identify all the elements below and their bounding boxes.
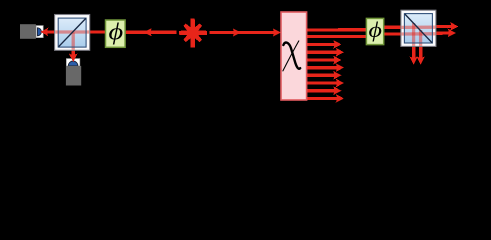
wire crystal output mode 2 [307, 35, 372, 38]
arrowhead BS2 down 1 [409, 57, 417, 65]
beamsplitter BS2 cube [404, 14, 432, 43]
wire beams through BS2 (muted) [402, 23, 436, 46]
phase shifter P2 box [366, 18, 383, 44]
wire BS2 down beam 2 [419, 30, 422, 59]
wire beam through BS1 (muted) [55, 32, 89, 50]
wire crystal fan arrow 4 [307, 66, 338, 69]
beamsplitter BS2 diagonal [405, 14, 432, 43]
svg-text:ϕ: ϕ [368, 19, 381, 43]
wire source to chi crystal [210, 31, 277, 34]
beamsplitter BS1 cube border [58, 18, 86, 47]
detector D1 sensor [37, 28, 41, 36]
wire crystal fan arrow 6 [307, 81, 338, 84]
wire crystal fan arrow 7 [307, 89, 335, 92]
wire BS2 down beam 1 [412, 23, 415, 59]
crystal chi label [283, 41, 300, 71]
star light source [179, 19, 207, 48]
wire phase shifter to source [125, 31, 177, 34]
arrowhead output mode 1 [450, 22, 458, 30]
detector D1 window [36, 26, 43, 38]
beamsplitter BS1 frame [55, 15, 90, 51]
wire crystal fan arrow 1 [307, 43, 335, 46]
arrowhead into D1 [40, 28, 48, 36]
arrowhead into D2 [69, 54, 78, 62]
wire BS1 down to D2 [72, 33, 75, 56]
beamsplitter BS2 cube border [404, 14, 432, 43]
detector D2 window [66, 59, 79, 66]
wire crystal fan arrow 5 [307, 74, 335, 77]
detector D1 body [20, 24, 36, 39]
phase shifter P1 box [106, 20, 126, 47]
detector D2 body [66, 66, 81, 86]
arrowhead mid toward crystal [233, 28, 241, 36]
beamsplitter BS1 cube [58, 18, 86, 47]
detector D2 sensor [68, 61, 78, 66]
svg-text:ϕ: ϕ [108, 19, 123, 46]
beamsplitter BS1 diagonal [59, 18, 86, 46]
crystal chi box [281, 12, 307, 100]
wire crystal fan arrow 8 [307, 97, 338, 100]
arrowhead into crystal [273, 28, 281, 36]
arrowhead BS2 down 2 [416, 57, 424, 65]
wire crystal output mode 1 [307, 28, 372, 32]
beamsplitter BS2 frame [401, 10, 436, 46]
arrowhead toward phase shifter [144, 28, 152, 36]
wire crystal fan arrow 3 [307, 58, 335, 61]
wire beam to D1 [44, 30, 106, 33]
wire crystal fan arrow 2 [307, 51, 338, 54]
arrowhead output mode 2 [448, 29, 456, 37]
